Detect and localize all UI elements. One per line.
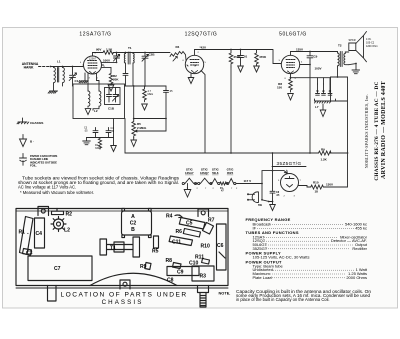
pin numbers U1	[80, 53, 106, 80]
pin numbers U2	[183, 52, 207, 80]
part R9 body	[145, 263, 151, 270]
capacitor C4	[106, 128, 111, 138]
capacitor AVC .05	[164, 86, 169, 131]
part R3 box	[192, 266, 214, 281]
B- arrow under L2	[85, 109, 91, 115]
transformer T2 secondary	[344, 52, 349, 65]
tube U2 internals	[187, 60, 200, 74]
svg-text:L2: L2	[94, 109, 98, 113]
svg-text:T1: T1	[128, 46, 132, 50]
B- arrow under C7	[320, 104, 326, 117]
coil L1 core	[58, 68, 59, 83]
wire to diode pot	[145, 52, 170, 54]
svg-text:*42V: *42V	[200, 46, 207, 50]
node line junction	[261, 183, 263, 185]
part L2 trimmer	[54, 219, 64, 229]
heater U4 filament	[229, 179, 234, 184]
legend B- symbol	[20, 135, 27, 147]
B- arrow under R8	[288, 94, 294, 101]
svg-text:12SQ7: 12SQ7	[200, 171, 209, 175]
coil L1 primary	[54, 67, 56, 84]
wire R6 down to B+ bus	[230, 67, 232, 153]
capacitor C1B trimmer	[107, 88, 119, 103]
speaker voice coil	[349, 43, 356, 52]
svg-text:1.2K: 1.2K	[321, 158, 328, 162]
part R1	[20, 217, 34, 255]
wire filter right edge down	[347, 77, 349, 187]
svg-text:12SA7: 12SA7	[89, 58, 97, 61]
filter box C7 outline	[331, 77, 348, 101]
svg-text:C10: C10	[189, 261, 199, 267]
capacitor C7A section	[316, 84, 320, 95]
svg-text:50L6GT/G: 50L6GT/G	[279, 32, 307, 38]
svg-text:12SA7: 12SA7	[185, 171, 194, 175]
svg-text:150: 150	[277, 86, 282, 90]
wire top B+ line	[93, 52, 146, 54]
wire bus left riser	[124, 119, 126, 154]
part R8 body	[173, 252, 226, 269]
oscillator inner box	[105, 88, 121, 105]
B- arrow under R5	[131, 138, 137, 147]
svg-text:T1: T1	[110, 246, 116, 252]
node antenna junction	[50, 66, 52, 68]
wire heater tail	[196, 183, 241, 185]
part C9	[167, 267, 199, 276]
svg-text:12SQ7GT/G: 12SQ7GT/G	[185, 32, 218, 38]
capacitor C1A (tuning)	[70, 67, 76, 87]
coil L2 winding a	[88, 91, 90, 107]
svg-text:R4: R4	[176, 45, 180, 49]
wire U1 plate to B+ line	[83, 53, 104, 66]
tube U4 internals	[285, 177, 294, 188]
svg-text:C2B: C2B	[149, 53, 156, 57]
B- arrow on grid network	[111, 138, 117, 152]
svg-text:12SA7GT/G: 12SA7GT/G	[79, 32, 111, 38]
svg-text:Plate Load: Plate Load	[253, 275, 272, 280]
common bracket of C7	[315, 99, 336, 103]
wire screen feed down	[309, 65, 311, 154]
pin numbers U3	[279, 60, 304, 80]
wire U1 pins into box	[88, 74, 99, 92]
resistor P.L. pilot	[220, 182, 227, 185]
svg-text:R10: R10	[201, 244, 211, 250]
svg-text:R6: R6	[176, 229, 183, 235]
chassis part labels	[19, 212, 224, 284]
svg-text:CHASSIS: CHASSIS	[30, 121, 43, 125]
part C4	[35, 218, 45, 248]
wire antenna line to grid	[51, 66, 84, 68]
tube U1 internals	[88, 61, 98, 74]
ground under speaker	[352, 70, 360, 74]
capacitor C7B section	[322, 84, 326, 95]
transformer T1 secondary	[133, 53, 134, 64]
node T2 to filter box	[337, 76, 339, 78]
svg-text:CHASSIS RE-276 — 4 TUBE AC — D: CHASSIS RE-276 — 4 TUBE AC — DC	[374, 81, 380, 180]
svg-text:117 V: 117 V	[244, 179, 252, 183]
svg-text:Rectifier: Rectifier	[352, 246, 367, 251]
svg-text:HANK: HANK	[24, 66, 34, 70]
volume control R5	[132, 119, 136, 138]
svg-text:1.5K: 1.5K	[106, 48, 113, 52]
node plate loop / C8 riser	[272, 170, 274, 172]
node coupling cap top	[240, 49, 242, 51]
svg-text:35Z5GT/G: 35Z5GT/G	[277, 161, 302, 166]
svg-text:* Measured with Vacuum tube vo: * Measured with Vacuum tube voltmeter.	[20, 190, 94, 195]
capacitor screen bypass trimmer	[116, 52, 118, 54]
resistor R2 20K	[102, 67, 113, 84]
coil L2 winding b	[93, 91, 101, 110]
antenna lead-in wire (dashed)	[39, 66, 51, 68]
wire switch to C8	[269, 201, 273, 203]
svg-text:1200 Ohm: 1200 Ohm	[366, 45, 378, 48]
node bus/screen feed	[309, 152, 311, 154]
svg-text:R3: R3	[200, 274, 207, 280]
svg-text:-: -	[27, 231, 29, 237]
chassis mount hole top	[38, 207, 49, 216]
svg-text:L2: L2	[64, 228, 70, 234]
svg-text:35Z5: 35Z5	[227, 171, 234, 175]
node L1 secondary top	[62, 66, 64, 68]
capacitor C10 coupling	[238, 50, 244, 67]
svg-text:C7: C7	[54, 266, 61, 272]
chassis layout outer box	[16, 207, 228, 308]
svg-text:SPKR: SPKR	[349, 38, 356, 42]
B+ bus wire	[125, 152, 348, 154]
resistor R6 plate load	[229, 50, 233, 68]
volume shaft	[198, 286, 209, 308]
part C2 gang capacitor	[122, 208, 152, 237]
ground on grid network	[83, 138, 91, 145]
svg-text:90V: 90V	[96, 48, 101, 52]
svg-text:ARVIN RADIO — MODELS 440T: ARVIN RADIO — MODELS 440T	[381, 81, 387, 179]
tube U1 12SA7 envelope	[84, 56, 102, 74]
svg-text:R10: R10	[313, 181, 319, 185]
svg-text:455 kc: 455 kc	[355, 225, 367, 230]
heater U1 filament	[182, 182, 184, 184]
resistor R9 filter (1.2k)	[319, 151, 331, 155]
svg-text:FOIL.: FOIL.	[30, 164, 37, 168]
B- arrow under 4.7MEG	[142, 104, 148, 110]
heater U2 filament	[198, 182, 200, 184]
svg-text:.05: .05	[84, 130, 88, 133]
part R2 body	[52, 209, 64, 215]
node C1A top	[72, 66, 74, 68]
tube U3 50L6 envelope	[281, 55, 299, 73]
wire secondary to ground	[349, 64, 356, 71]
part C11	[169, 236, 192, 246]
svg-text:L1: L1	[57, 60, 61, 64]
node bus/rectifier loop	[272, 152, 274, 154]
svg-text:R9: R9	[321, 148, 325, 152]
svg-text:R5: R5	[152, 249, 159, 255]
part R5	[154, 236, 159, 248]
resistor 1.5K (screen dropper)	[103, 51, 113, 55]
coil L1 secondary	[63, 67, 65, 87]
wire U3 plate up	[290, 52, 292, 56]
resistor R4 diagonal (diode load)	[170, 52, 186, 61]
svg-text:LOCATION OF PARTS UNDER: LOCATION OF PARTS UNDER	[61, 292, 188, 299]
ground under L1 primary	[48, 83, 57, 93]
chassis foot	[48, 286, 57, 302]
B- arrow under R7	[254, 66, 260, 72]
svg-text:R1: R1	[19, 230, 26, 236]
svg-text:B -: B -	[30, 140, 34, 144]
node cathode	[290, 77, 292, 79]
svg-text:R8: R8	[166, 258, 173, 264]
node bus/filter	[347, 152, 349, 154]
capacitor C2B trimmer	[144, 52, 146, 54]
svg-text:R9: R9	[140, 264, 147, 270]
svg-text:NOTE.: NOTE.	[219, 291, 231, 296]
svg-text:C11: C11	[172, 240, 181, 246]
wire box bottom to grid network	[113, 119, 115, 138]
svg-text:AC line voltage at 117 Volts A: AC line voltage at 117 Volts AC.	[18, 184, 76, 189]
ground near U1	[79, 73, 88, 83]
svg-text:C2: C2	[130, 221, 137, 227]
wire U2 plate line	[195, 50, 282, 64]
transformer T2 core	[340, 52, 342, 67]
node plate bypass	[309, 51, 311, 53]
wire U4 cathode out	[299, 186, 311, 188]
svg-text:C9: C9	[177, 270, 184, 276]
part R7 body	[203, 223, 214, 235]
wire heater to junction	[240, 183, 262, 185]
wire U1 plate pin to trimmer node	[101, 61, 116, 63]
svg-text:R7: R7	[208, 218, 215, 224]
node volume top	[133, 118, 135, 120]
svg-text:in place of the built in Capac: in place of the built in Capacity on the…	[236, 297, 330, 302]
node plate resistor top	[230, 49, 232, 51]
svg-text:L7: L7	[315, 105, 319, 109]
wire junction riser to plate loop	[262, 170, 287, 183]
part R11 body	[202, 259, 210, 265]
B- arrow under R2	[108, 85, 114, 91]
wire U3 plate line to T2	[291, 51, 338, 53]
capacitor C8 line bypass	[270, 153, 275, 202]
svg-text:C6: C6	[217, 243, 224, 249]
legend paper capacitor symbol	[20, 154, 27, 166]
svg-text:105V: 105V	[315, 67, 322, 71]
resistor R8 cathode	[289, 79, 293, 92]
svg-text:135V: 135V	[296, 48, 303, 52]
transformer T2 primary	[338, 52, 340, 67]
part R6 body	[183, 229, 200, 238]
svg-text:2000 Ohms: 2000 Ohms	[346, 275, 367, 280]
capacitor C7C section	[328, 84, 332, 95]
part C7	[28, 256, 92, 281]
wire U3 cathode	[290, 74, 292, 79]
node bus/plate feed	[230, 152, 232, 154]
part C6	[217, 224, 227, 270]
svg-text:R2: R2	[66, 212, 73, 218]
node AVC/C2B	[144, 85, 146, 87]
wire cathode to filter	[291, 77, 331, 79]
switch SW	[261, 199, 263, 201]
wire T2 primary bottom down	[337, 66, 339, 77]
pin numbers U4	[278, 180, 302, 198]
transformer T1 primary	[125, 52, 127, 54]
B- arrow under U2	[188, 74, 194, 84]
resistor R10 18ohm	[311, 185, 348, 189]
part C5	[179, 218, 205, 230]
heater U3 filament	[212, 179, 218, 184]
spec block	[246, 217, 368, 280]
power plug P1	[249, 192, 259, 203]
svg-text:B: B	[131, 227, 135, 233]
heater pin numbers	[187, 188, 239, 190]
svg-text:C8: C8	[167, 278, 174, 284]
B- arrow under switch line	[272, 201, 274, 203]
wire junction down to switch	[261, 184, 263, 200]
node screen	[309, 64, 311, 66]
speaker cutout arc	[90, 273, 177, 285]
svg-text:.05: .05	[111, 130, 115, 133]
svg-text:A: A	[131, 214, 135, 220]
svg-text:C9: C9	[314, 55, 318, 59]
oscillator box outline	[73, 84, 125, 119]
heater string B- arrow	[184, 184, 191, 198]
capacitor under T1	[123, 63, 128, 86]
transformer T1 core	[128, 52, 130, 64]
speaker cone	[356, 32, 367, 62]
B- arrow under C10	[238, 66, 244, 72]
svg-text:MEG: MEG	[148, 93, 154, 96]
svg-text:CHASSIS: CHASSIS	[102, 299, 144, 306]
svg-text:18: 18	[315, 190, 319, 194]
chassis mount hole bottom	[120, 280, 130, 289]
wire volume feed	[133, 86, 135, 119]
wire T1 secondary bottom	[132, 63, 134, 86]
svg-text:.01: .01	[243, 55, 248, 59]
svg-text:C4: C4	[36, 231, 43, 237]
legend chassis ground symbol	[17, 118, 29, 124]
wire C2B bottom down to AVC line	[144, 62, 146, 86]
svg-text:R4: R4	[166, 214, 173, 220]
svg-text:.05: .05	[169, 90, 173, 93]
capacitor C9 plate bypass	[307, 52, 313, 65]
resistor R1 330K	[98, 138, 101, 150]
capacitor C3	[93, 128, 98, 138]
note paragraph	[18, 176, 179, 196]
resistor 4.7MEG AVC	[143, 86, 147, 102]
svg-text:C1B: C1B	[108, 107, 115, 111]
wire U2 plate up	[194, 50, 196, 56]
svg-text:2 MEG: 2 MEG	[137, 126, 147, 130]
wire detector drop	[201, 71, 205, 154]
wire U3 screen to bypass node	[300, 64, 310, 66]
svg-text:20K: 20K	[113, 78, 119, 82]
svg-text:470K: 470K	[259, 55, 267, 59]
wire top of C7 sections	[318, 78, 331, 84]
part T1 under chassis	[100, 237, 140, 257]
tube U4 35Z5 envelope	[281, 174, 299, 192]
svg-text:130V: 130V	[326, 183, 333, 187]
svg-text:C5: C5	[186, 221, 193, 227]
resistor R7 grid leak	[255, 50, 259, 67]
svg-text:330K: 330K	[95, 147, 101, 150]
spec dot leaders	[257, 224, 354, 277]
chassis mount hole top right	[198, 209, 209, 217]
bottom NOTE paragraph	[219, 289, 372, 302]
svg-text:50L6: 50L6	[212, 171, 219, 175]
wire wiper line	[134, 119, 166, 132]
tube U2 12SQ7 envelope	[185, 55, 203, 73]
wire grid network horizontal	[87, 137, 114, 139]
svg-text:T2: T2	[338, 44, 342, 48]
wire AVC line	[125, 85, 167, 87]
tube U3 internals	[286, 60, 295, 74]
